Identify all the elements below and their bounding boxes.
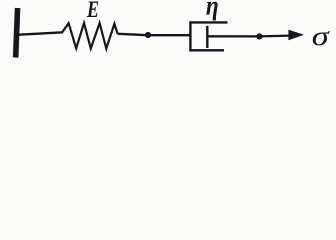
spring E: [62, 23, 118, 49]
wire from wall to spring: [19, 32, 63, 34]
node junction dot 1: [145, 32, 151, 38]
wire spring to node: [118, 34, 190, 35]
svg-text:η: η: [206, 0, 219, 21]
arrow head: [288, 30, 304, 41]
fixed wall: [13, 8, 20, 58]
svg-text:E: E: [86, 0, 99, 23]
piston rod wire to node 2: [207, 34, 290, 37]
dashpot eta : cylinder: [190, 22, 227, 50]
svg-text:σ: σ: [312, 20, 331, 51]
dashpot piston: [206, 26, 208, 48]
node junction dot 2: [256, 33, 262, 39]
